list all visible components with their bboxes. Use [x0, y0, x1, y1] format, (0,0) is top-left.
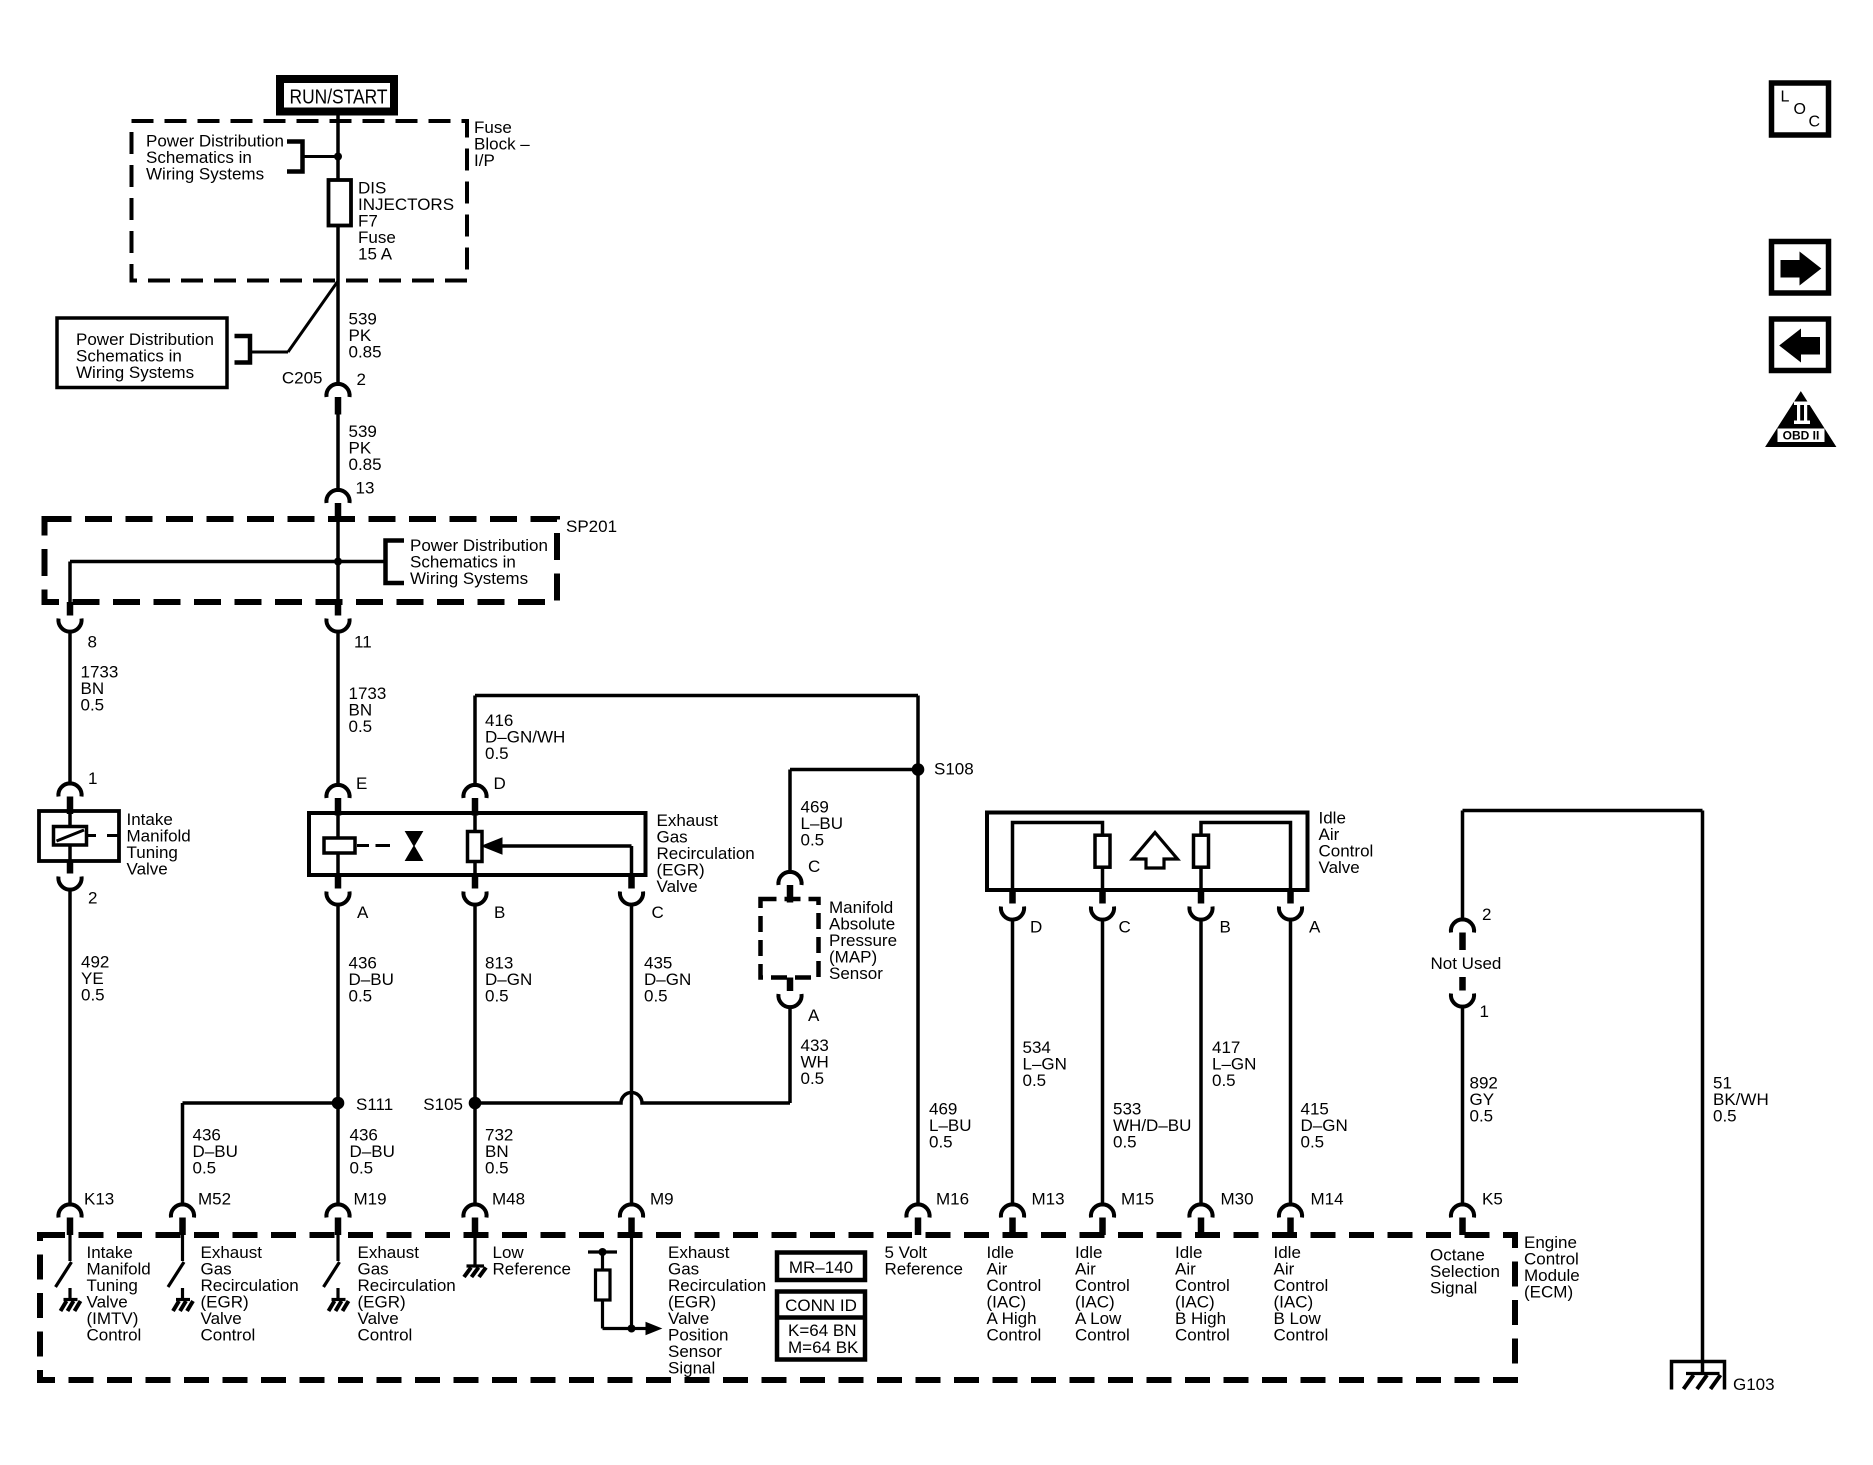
- icon back arrow box: [1772, 319, 1829, 371]
- connector IMTV pin 2: [58, 860, 81, 890]
- IMTV solenoid resistor symbol: [54, 827, 87, 846]
- svg-text:C: C: [1119, 918, 1131, 937]
- ECM internal ground (M48 low reference): [464, 1235, 486, 1277]
- ground G103: [1672, 1362, 1725, 1390]
- splice S108: [912, 763, 925, 776]
- svg-text:K13: K13: [84, 1190, 114, 1209]
- svg-text:11: 11: [354, 633, 372, 652]
- connector ECM pin M52: [171, 1204, 194, 1235]
- svg-text:G103: G103: [1733, 1375, 1775, 1394]
- wire MAP A to S105 with hop over M9 wire: [475, 1093, 790, 1104]
- connector EGR pin C: [620, 875, 643, 905]
- wire RUN/START to fuse: [336, 115, 340, 180]
- wire circuit 435 D-GN, EGR C to M9: [630, 904, 634, 1205]
- svg-text:D: D: [494, 774, 506, 793]
- wire circuit 433 WH, MAP A to S105: [788, 1006, 792, 1103]
- svg-text:MR–140: MR–140: [789, 1258, 853, 1277]
- svg-text:SP201: SP201: [566, 517, 617, 536]
- connector IMTV pin 1: [58, 783, 81, 814]
- wire C205 to SP201, circuit 539 PK: [336, 412, 340, 490]
- svg-text:Not Used: Not Used: [1431, 954, 1502, 973]
- svg-text:M19: M19: [354, 1190, 387, 1209]
- svg-text:M15: M15: [1121, 1190, 1154, 1209]
- engine control module dashed box: [40, 1235, 1515, 1380]
- svg-text:2: 2: [1482, 905, 1491, 924]
- icon OBD II triangle: [1766, 392, 1836, 447]
- ECM internal EGR position sense network at M9: [630, 1235, 633, 1329]
- connector ECM pin K5: [1451, 1204, 1474, 1235]
- EGR solenoid coil symbol: [324, 838, 355, 853]
- wire circuit 492 YE to K13: [68, 889, 72, 1205]
- connector EGR pin B: [463, 875, 486, 905]
- svg-text:13: 13: [356, 479, 375, 498]
- svg-text:S108: S108: [934, 760, 974, 779]
- svg-text:M48: M48: [492, 1190, 525, 1209]
- svg-text:CONN ID: CONN ID: [785, 1296, 857, 1315]
- wire circuit 415 D-GN, IAC A to M14: [1289, 919, 1293, 1205]
- svg-text:M13: M13: [1032, 1190, 1065, 1209]
- svg-text:A: A: [1309, 918, 1321, 937]
- 5V rail tick: [588, 1250, 617, 1253]
- svg-text:A: A: [357, 903, 369, 922]
- svg-text:C: C: [808, 857, 820, 876]
- connector IAC pin B: [1189, 890, 1212, 920]
- svg-text:1: 1: [88, 769, 97, 788]
- IAC pintle arrow symbol: [1133, 833, 1178, 869]
- junction 5V rail: [599, 1248, 607, 1256]
- connector ECM pin M15: [1091, 1204, 1114, 1235]
- connector ECM pin M16: [906, 1204, 929, 1235]
- EGR wiper arrow: [500, 844, 632, 848]
- connector C205 pin 2: [326, 384, 349, 415]
- wire S111 branch to M52: [183, 1101, 339, 1105]
- splice S105: [469, 1097, 482, 1110]
- svg-text:C205: C205: [282, 369, 323, 388]
- MR-140 reference box: [777, 1253, 865, 1281]
- svg-text:OBD II: OBD II: [1783, 429, 1820, 443]
- wire circuit 892 GY to K5: [1461, 1005, 1465, 1205]
- connector EGR pin D: [463, 785, 486, 816]
- EGR mech link dashes: [357, 844, 369, 847]
- CONN ID box: [777, 1292, 865, 1360]
- IAC winding A loop: [1013, 823, 1103, 891]
- svg-text:D: D: [1030, 918, 1042, 937]
- EGR position sensor potentiometer: [468, 832, 483, 862]
- wire S108 branch to MAP sensor, circuit 469 L-BU: [790, 768, 918, 772]
- svg-text:C: C: [652, 903, 664, 922]
- ECM internal switch to ground (M52 EGR control): [168, 1235, 193, 1311]
- svg-text:B: B: [494, 903, 505, 922]
- connector IAC pin D: [1001, 890, 1024, 920]
- power distribution reference box: [57, 318, 227, 388]
- SP201 internal bus wire: [70, 560, 385, 564]
- icon forward arrow box: [1772, 242, 1829, 294]
- connector ECM pin M14: [1279, 1204, 1302, 1235]
- IMTV mech link dash: [87, 834, 96, 837]
- connector IAC pin A: [1279, 890, 1302, 920]
- diagonal wire to fuse block: [288, 281, 338, 352]
- connector ECM pin M9: [620, 1204, 643, 1235]
- bracket to power distribution label: [287, 142, 303, 172]
- svg-text:S111: S111: [356, 1095, 393, 1114]
- 416 D-GN/WH wire from EGR pin D to S108: [473, 696, 477, 786]
- connector ECM pin M13: [1001, 1204, 1024, 1235]
- male stub not used pin 1: [1459, 977, 1466, 991]
- svg-text:C: C: [1809, 114, 1821, 131]
- IAC resistor B: [1194, 835, 1209, 867]
- connector EGR pin E: [326, 785, 349, 816]
- pull-up resistor M9: [596, 1270, 611, 1300]
- ECM internal switch to ground (K13 IMTV control): [56, 1235, 81, 1311]
- connector pin 11 out of SP201: [326, 602, 349, 632]
- svg-text:M=64 BK: M=64 BK: [788, 1338, 859, 1357]
- wire circuit 417 L-GN, IAC B to M30: [1199, 919, 1203, 1205]
- power source RUN/START: [276, 75, 398, 116]
- wire pin 13 through SP201 to pin 11: [336, 516, 340, 602]
- EGR pintle valve symbol: [406, 832, 423, 847]
- junction on SP201 bus: [334, 558, 342, 566]
- splice pack SP201 dashed box: [45, 519, 558, 602]
- wire circuit 534 L-GN, IAC D to M13: [1011, 919, 1015, 1205]
- svg-text:K5: K5: [1482, 1190, 1503, 1209]
- wire SP201 to pin 8: [68, 562, 72, 603]
- connector EGR pin A: [326, 875, 349, 905]
- EGR valve box: [309, 813, 646, 875]
- connector not used pin 2: [1451, 919, 1474, 950]
- wire fuse to C205, circuit 539 PK: [336, 226, 340, 385]
- svg-text:1: 1: [1480, 1002, 1489, 1021]
- wire circuit 1733 BN to EGR: [336, 631, 340, 786]
- svg-text:EngineControlModule(ECM): EngineControlModule(ECM): [1524, 1233, 1580, 1302]
- wire circuit 1733 BN to IMTV: [68, 631, 72, 785]
- bracket from power distribution box: [235, 336, 251, 363]
- MAP sensor dashed box: [761, 899, 819, 978]
- svg-text:B: B: [1220, 918, 1231, 937]
- svg-text:2: 2: [357, 370, 366, 389]
- svg-text:M16: M16: [936, 1190, 969, 1209]
- connector pin 13 into SP201: [326, 490, 349, 521]
- svg-text:M52: M52: [198, 1190, 231, 1209]
- svg-text:M30: M30: [1221, 1190, 1254, 1209]
- svg-text:O: O: [1794, 101, 1806, 118]
- IAC winding B loop: [1201, 823, 1291, 891]
- connector IAC pin C: [1091, 890, 1114, 920]
- connector ECM pin K13: [58, 1204, 81, 1235]
- ECM internal switch to ground (M19 EGR control): [324, 1235, 349, 1311]
- fuse F7 DIS INJECTORS 15A: [329, 180, 352, 226]
- splice S111: [332, 1097, 345, 1110]
- svg-text:M9: M9: [650, 1190, 674, 1209]
- connector pin 8 out of SP201: [58, 602, 81, 632]
- wire circuit 436 D-BU, EGR A to S111/M19: [336, 904, 340, 1205]
- wire circuit 533 WH/D-BU, IAC C to M15: [1101, 919, 1105, 1205]
- bracket to power distribution label (SP201): [386, 541, 405, 584]
- fuse block dashed box: [132, 121, 468, 281]
- connector ECM pin M30: [1189, 1204, 1212, 1235]
- svg-text:A: A: [808, 1006, 820, 1025]
- junction on fuse feed wire: [334, 153, 342, 161]
- junction M9 node: [628, 1325, 636, 1333]
- female arc not used pin 1: [1451, 994, 1474, 1007]
- svg-text:L: L: [1781, 89, 1790, 106]
- connector ECM pin M19: [326, 1204, 349, 1235]
- svg-text:E: E: [356, 774, 367, 793]
- connector MAP pin C: [778, 872, 801, 903]
- intake manifold tuning valve box: [39, 811, 119, 861]
- wire circuit 469 L-BU, S108 to M16: [916, 696, 920, 1205]
- connector MAP pin A: [778, 978, 801, 1008]
- svg-text:8: 8: [88, 633, 97, 652]
- idle air control valve box: [987, 813, 1308, 891]
- svg-text:2: 2: [88, 889, 97, 908]
- IAC resistor A: [1095, 835, 1110, 867]
- wire circuit 813 D-GN, EGR B to S105/M48: [473, 904, 477, 1205]
- svg-text:M14: M14: [1311, 1190, 1344, 1209]
- wire octane select loop to ground G103: [1461, 811, 1465, 920]
- icon LOC box: [1772, 83, 1829, 135]
- connector ECM pin M48: [463, 1204, 486, 1235]
- svg-text:RUN/START: RUN/START: [290, 87, 388, 109]
- signal arrow M9: [646, 1323, 661, 1335]
- svg-text:S105: S105: [423, 1095, 463, 1114]
